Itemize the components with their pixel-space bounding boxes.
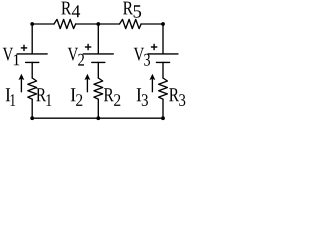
resistor R1 xyxy=(28,78,37,99)
label R1 xyxy=(36,88,51,106)
wire R1 to bottom xyxy=(31,99,33,118)
wire top of V3 xyxy=(162,24,164,54)
label I1 xyxy=(6,88,16,106)
resistor R4 xyxy=(54,19,76,28)
label R3 xyxy=(169,88,185,106)
resistor R2 xyxy=(94,78,103,99)
wire V2 to R2 xyxy=(97,62,99,78)
label V2 xyxy=(68,48,84,66)
plus sign V3 xyxy=(151,44,157,50)
label I2 xyxy=(71,88,82,106)
wire top of V1 xyxy=(31,24,33,54)
node top-left xyxy=(30,22,34,26)
node top-middle xyxy=(96,22,100,26)
wire V1 to R1 xyxy=(31,62,33,78)
resistor R3 xyxy=(159,78,168,99)
battery V2 plates xyxy=(83,53,113,55)
label R4 xyxy=(61,2,80,18)
wire R4 to mid node xyxy=(76,23,120,25)
node bottom-right xyxy=(161,116,165,120)
label R5 xyxy=(123,2,141,18)
wire R5 to top-right xyxy=(141,23,163,25)
wire R3 to bottom xyxy=(162,99,164,118)
current arrow I2 xyxy=(85,74,91,93)
label V3 xyxy=(134,48,150,66)
label V1 xyxy=(3,48,20,65)
current arrow I3 xyxy=(150,74,156,93)
bottom wire xyxy=(32,117,163,119)
resistor R5 xyxy=(120,19,142,28)
wire V3 to R3 xyxy=(162,62,164,78)
node top-right xyxy=(161,22,165,26)
wire top of V2 xyxy=(97,24,99,54)
node bottom-left xyxy=(30,116,34,120)
plus sign V2 xyxy=(85,44,91,50)
label R2 xyxy=(104,88,120,106)
plus sign V1 xyxy=(21,45,27,51)
current arrow I1 xyxy=(19,74,25,93)
battery V1 plates xyxy=(17,53,47,55)
battery V3 plates xyxy=(148,53,178,55)
junction dots xyxy=(30,22,165,120)
label I3 xyxy=(137,88,148,106)
node bottom-middle xyxy=(96,116,100,120)
wire top-left to R4 xyxy=(32,23,54,25)
wire R2 to bottom xyxy=(97,99,99,118)
